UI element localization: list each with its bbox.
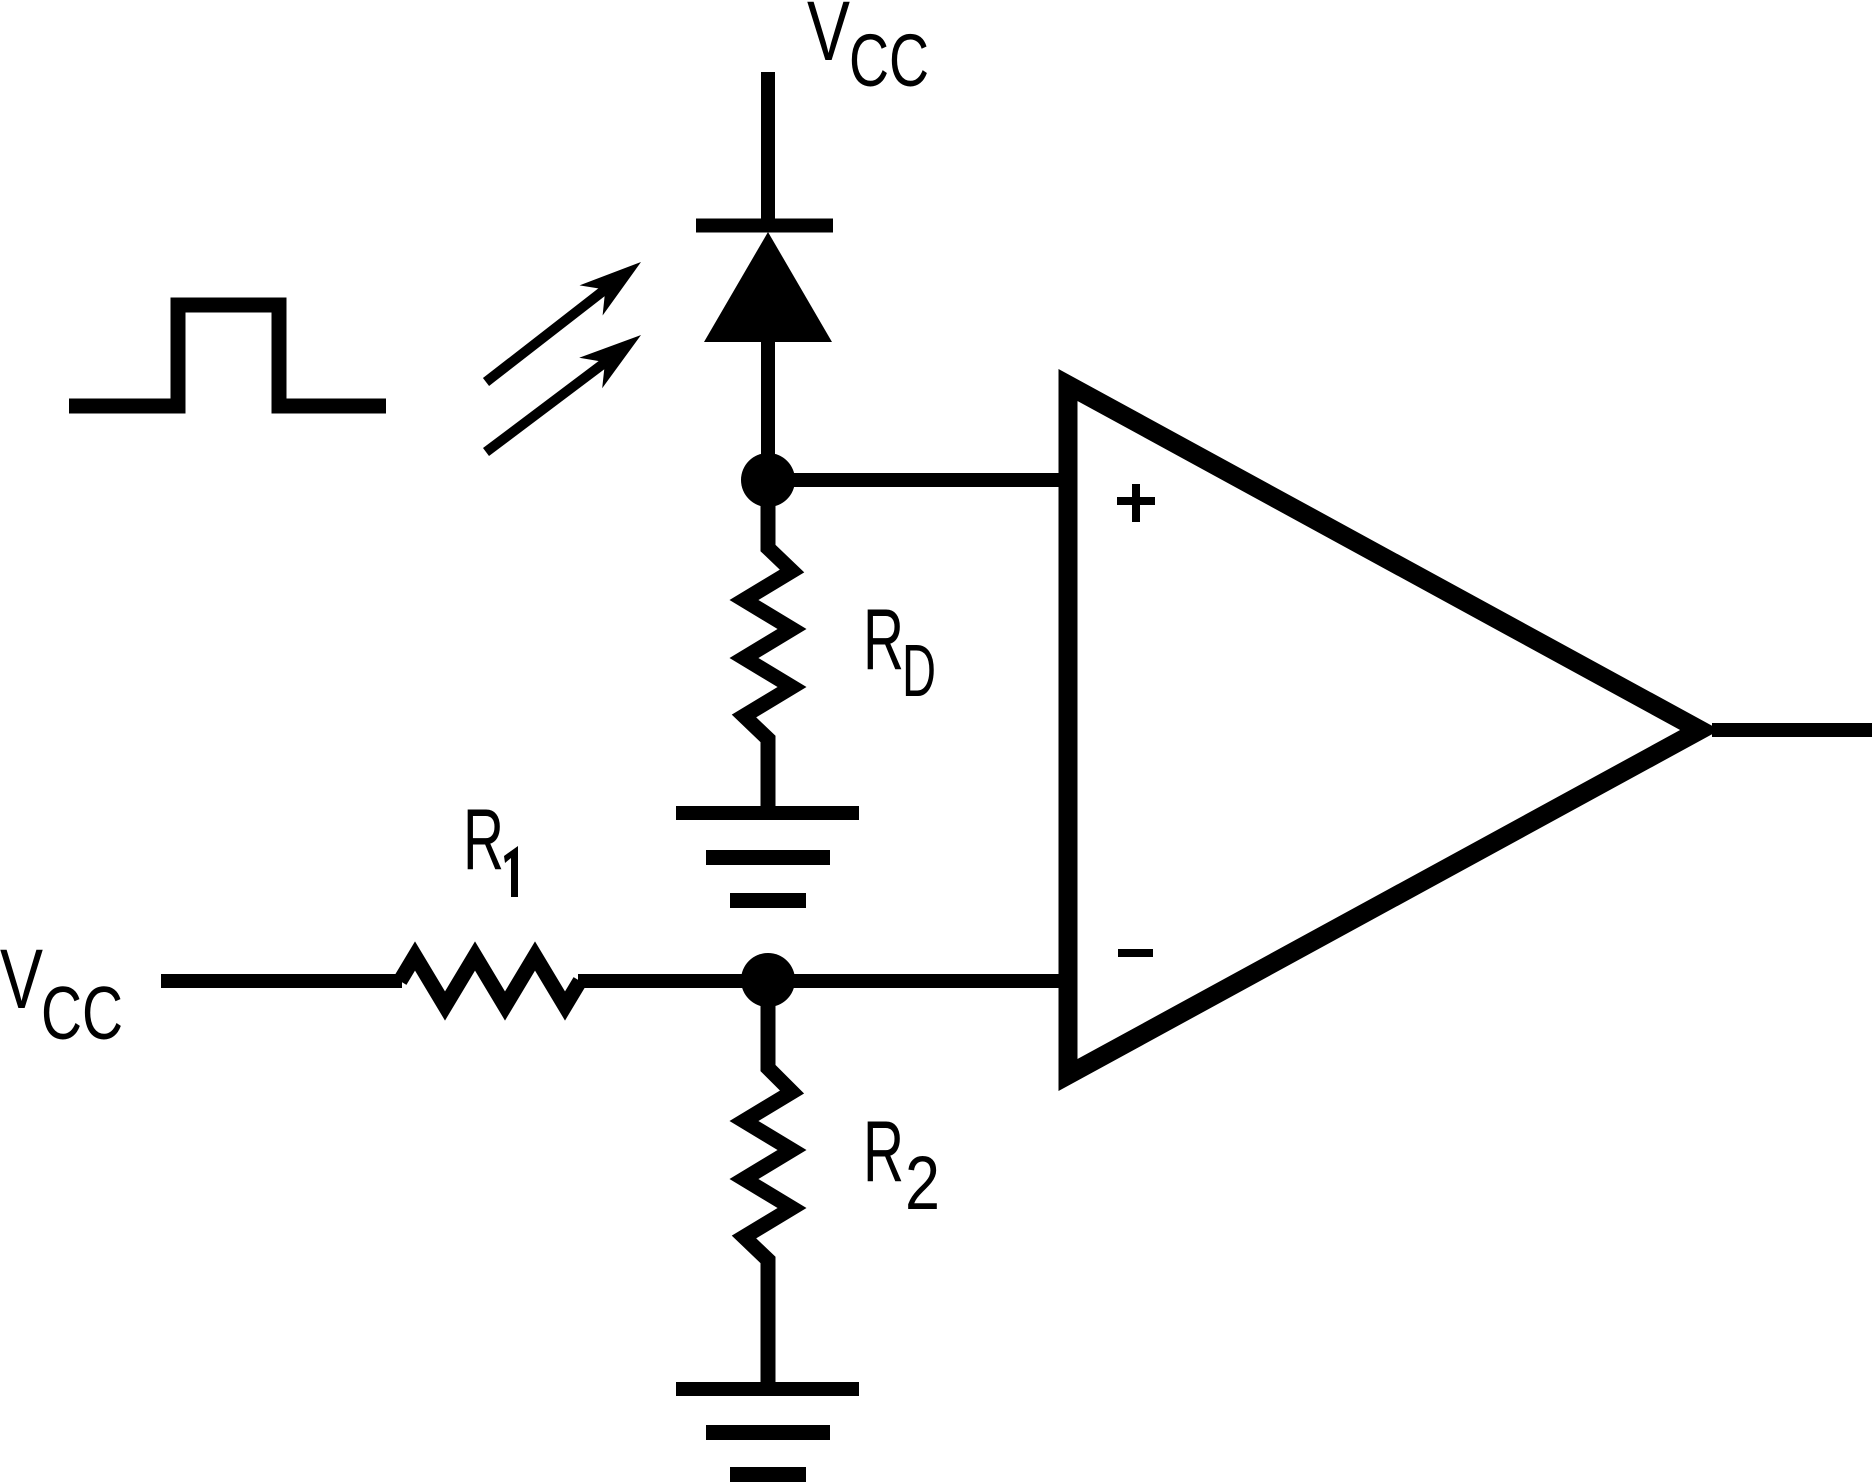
wire VCC to resistor R1 bbox=[161, 974, 402, 988]
resistor RD bbox=[744, 480, 792, 813]
resistor R2 bbox=[744, 980, 792, 1390]
net VCC (top) label bbox=[807, 0, 929, 102]
svg-text:CC: CC bbox=[41, 971, 123, 1055]
wire node A to op-amp noninverting input bbox=[768, 473, 1068, 487]
svg-text:R: R bbox=[863, 1104, 904, 1200]
svg-text:D: D bbox=[902, 629, 936, 712]
wire R1 to node B and op-amp inverting input bbox=[578, 974, 1068, 988]
ground (below RD) bbox=[676, 806, 859, 908]
ground (below R2) bbox=[676, 1382, 859, 1482]
op-amp inverting input - sign bbox=[1118, 949, 1153, 957]
resistor R1 bbox=[400, 956, 580, 1006]
svg-text:R: R bbox=[463, 792, 504, 888]
wire VCC to photodiode cathode bbox=[761, 72, 775, 225]
resistor R1 label bbox=[463, 792, 518, 897]
light arrow 1 bbox=[486, 262, 641, 382]
output wire bbox=[1712, 723, 1872, 737]
junction node B bbox=[741, 953, 795, 1007]
resistor R2 label bbox=[863, 1104, 940, 1226]
svg-text:V: V bbox=[807, 0, 850, 78]
svg-text:2: 2 bbox=[905, 1141, 940, 1226]
light arrow 2 bbox=[486, 335, 641, 452]
photodiode D1 anode triangle bbox=[704, 232, 832, 342]
op-amp comparator U1 bbox=[1068, 385, 1700, 1075]
resistor RD label bbox=[863, 592, 936, 712]
pulse waveform input signal bbox=[69, 305, 386, 406]
wire photodiode anode to node A bbox=[761, 342, 775, 480]
junction node A bbox=[741, 453, 795, 507]
net VCC (left) label bbox=[0, 932, 123, 1055]
svg-text:R: R bbox=[863, 592, 904, 688]
svg-text:V: V bbox=[0, 932, 43, 1026]
op-amp noninverting input + sign bbox=[1117, 484, 1155, 522]
svg-text:CC: CC bbox=[849, 19, 929, 102]
photodiode D1 cathode bar bbox=[696, 219, 833, 233]
